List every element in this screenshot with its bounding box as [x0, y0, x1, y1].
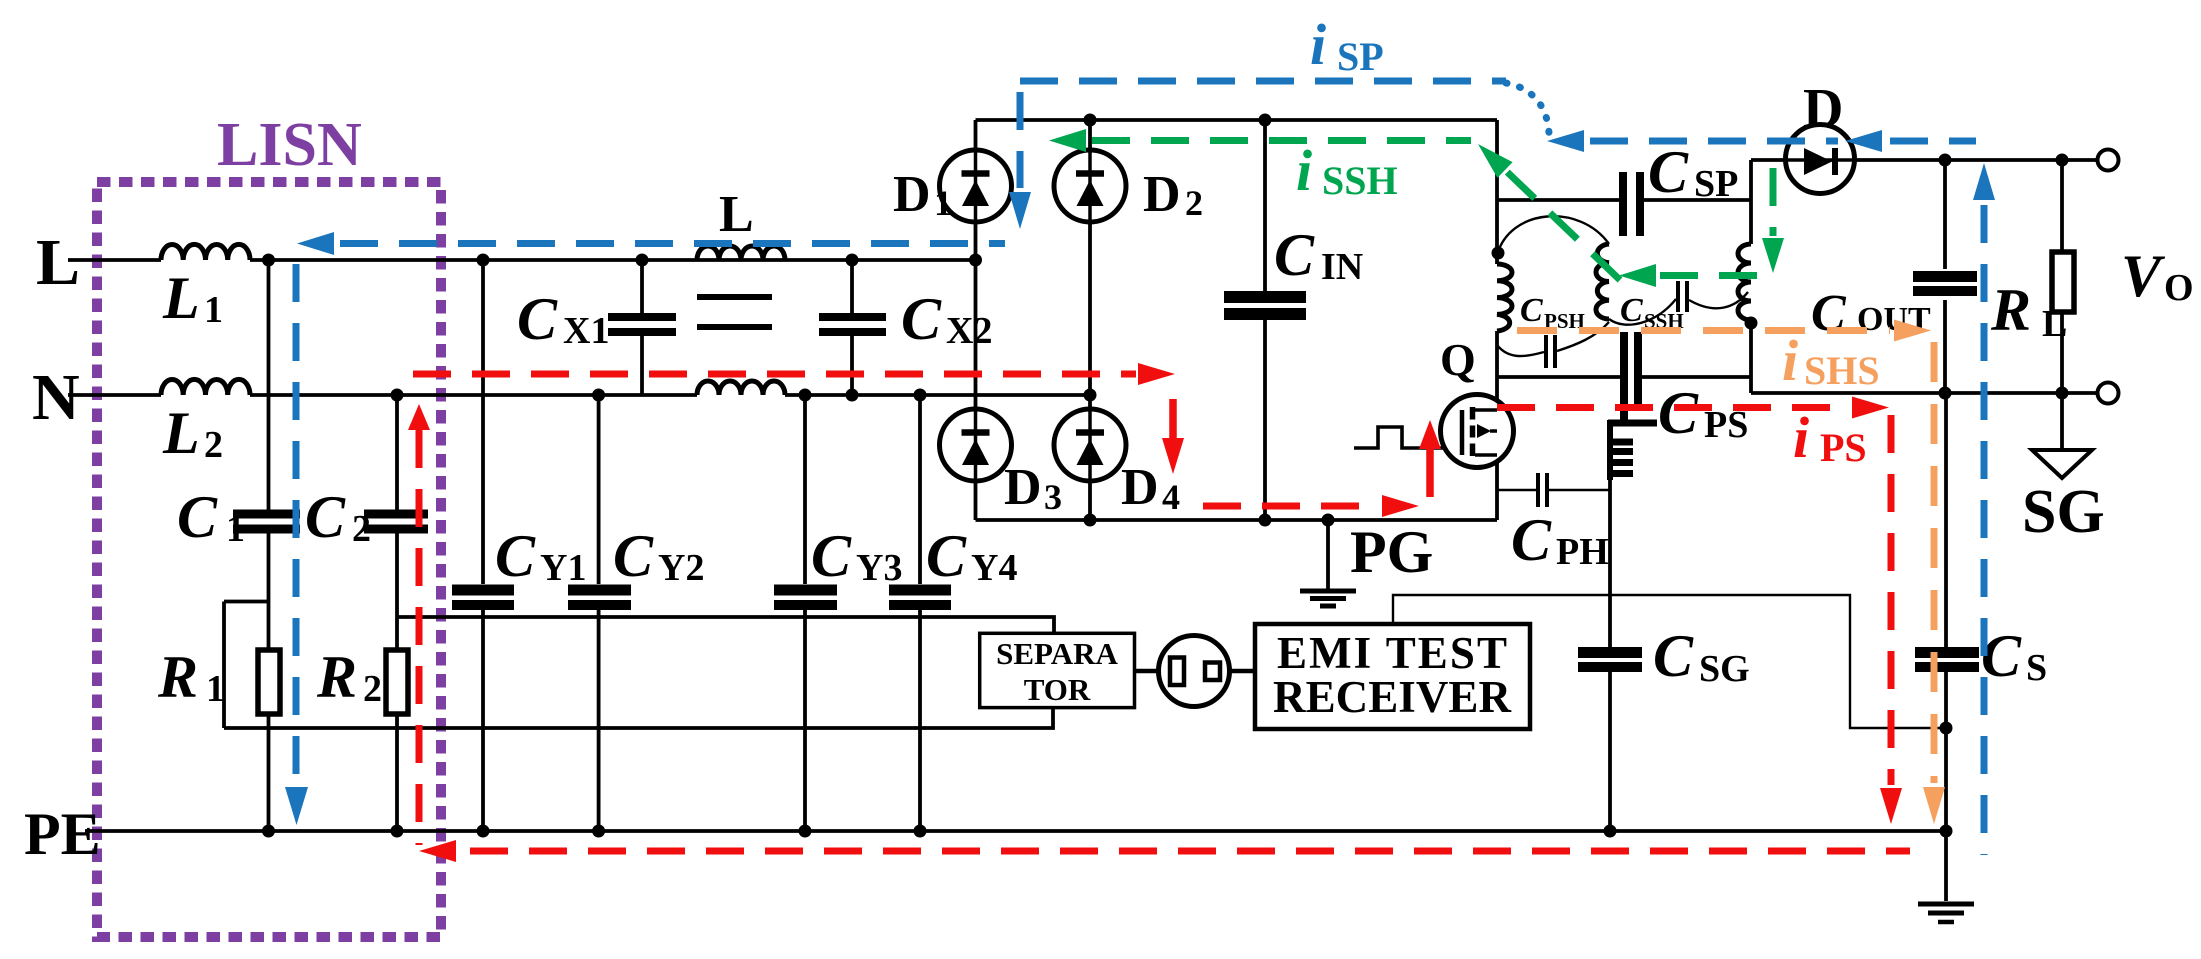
- svg-text:PS: PS: [1820, 425, 1867, 470]
- svg-text:R: R: [157, 644, 198, 710]
- svg-text:D: D: [1004, 459, 1042, 516]
- svg-text:L: L: [162, 265, 200, 331]
- svg-text:PG: PG: [1350, 519, 1433, 585]
- svg-text:X2: X2: [946, 310, 992, 352]
- svg-text:1: 1: [204, 289, 223, 331]
- svg-text:1: 1: [206, 668, 225, 710]
- svg-text:2: 2: [363, 668, 382, 710]
- svg-text:C: C: [811, 523, 852, 589]
- svg-text:X1: X1: [563, 310, 609, 352]
- svg-text:C: C: [926, 523, 967, 589]
- svg-text:C: C: [901, 286, 942, 352]
- svg-text:TOR: TOR: [1024, 672, 1091, 707]
- svg-text:Y3: Y3: [856, 547, 902, 589]
- svg-text:C: C: [1648, 139, 1689, 205]
- svg-text:D: D: [1803, 78, 1843, 140]
- svg-text:Q: Q: [1440, 334, 1476, 385]
- svg-text:C: C: [1620, 292, 1643, 329]
- svg-text:N: N: [32, 361, 80, 434]
- svg-text:i: i: [1296, 138, 1312, 203]
- svg-text:2: 2: [352, 508, 371, 550]
- svg-text:R: R: [316, 644, 357, 710]
- svg-text:C: C: [305, 484, 346, 550]
- svg-text:C: C: [1274, 222, 1315, 288]
- svg-text:EMI TEST: EMI TEST: [1277, 628, 1507, 678]
- svg-text:2: 2: [1185, 183, 1203, 223]
- svg-text:L: L: [719, 186, 754, 243]
- svg-text:RECEIVER: RECEIVER: [1273, 672, 1512, 722]
- svg-text:SG: SG: [2022, 478, 2105, 546]
- svg-text:C: C: [495, 523, 536, 589]
- svg-text:O: O: [2164, 267, 2194, 309]
- svg-text:L: L: [36, 226, 80, 299]
- svg-text:D: D: [893, 166, 931, 223]
- svg-text:3: 3: [1044, 477, 1062, 517]
- svg-text:Y2: Y2: [658, 547, 704, 589]
- svg-text:SHS: SHS: [1804, 348, 1880, 393]
- svg-text:i: i: [1782, 328, 1798, 393]
- svg-text:SP: SP: [1337, 34, 1384, 79]
- svg-text:1: 1: [226, 508, 245, 550]
- svg-text:R: R: [1990, 277, 2031, 343]
- svg-text:L: L: [2042, 303, 2067, 345]
- svg-text:SP: SP: [1694, 163, 1738, 205]
- svg-text:4: 4: [1162, 477, 1180, 517]
- svg-text:C: C: [1520, 292, 1543, 329]
- svg-text:i: i: [1310, 12, 1326, 77]
- svg-text:PH: PH: [1556, 531, 1609, 573]
- svg-text:PE: PE: [24, 801, 101, 867]
- svg-text:SG: SG: [1699, 648, 1750, 690]
- svg-text:SEPARA: SEPARA: [996, 636, 1118, 671]
- svg-text:C: C: [1658, 380, 1699, 446]
- svg-text:IN: IN: [1321, 246, 1363, 288]
- svg-text:2: 2: [204, 424, 223, 466]
- svg-text:D: D: [1121, 459, 1159, 516]
- svg-text:C: C: [1653, 623, 1694, 689]
- svg-text:C: C: [613, 523, 654, 589]
- svg-text:C: C: [177, 484, 218, 550]
- svg-text:LISN: LISN: [217, 111, 362, 179]
- svg-text:Y1: Y1: [540, 547, 586, 589]
- svg-text:D: D: [1143, 166, 1181, 223]
- svg-text:SSH: SSH: [1322, 158, 1398, 203]
- svg-text:C: C: [517, 286, 558, 352]
- svg-text:V: V: [2121, 243, 2166, 309]
- svg-text:L: L: [162, 400, 200, 466]
- svg-text:C: C: [1511, 507, 1552, 573]
- svg-text:Y4: Y4: [971, 547, 1017, 589]
- svg-text:S: S: [2026, 647, 2047, 689]
- svg-text:1: 1: [934, 183, 952, 223]
- svg-text:i: i: [1793, 405, 1809, 470]
